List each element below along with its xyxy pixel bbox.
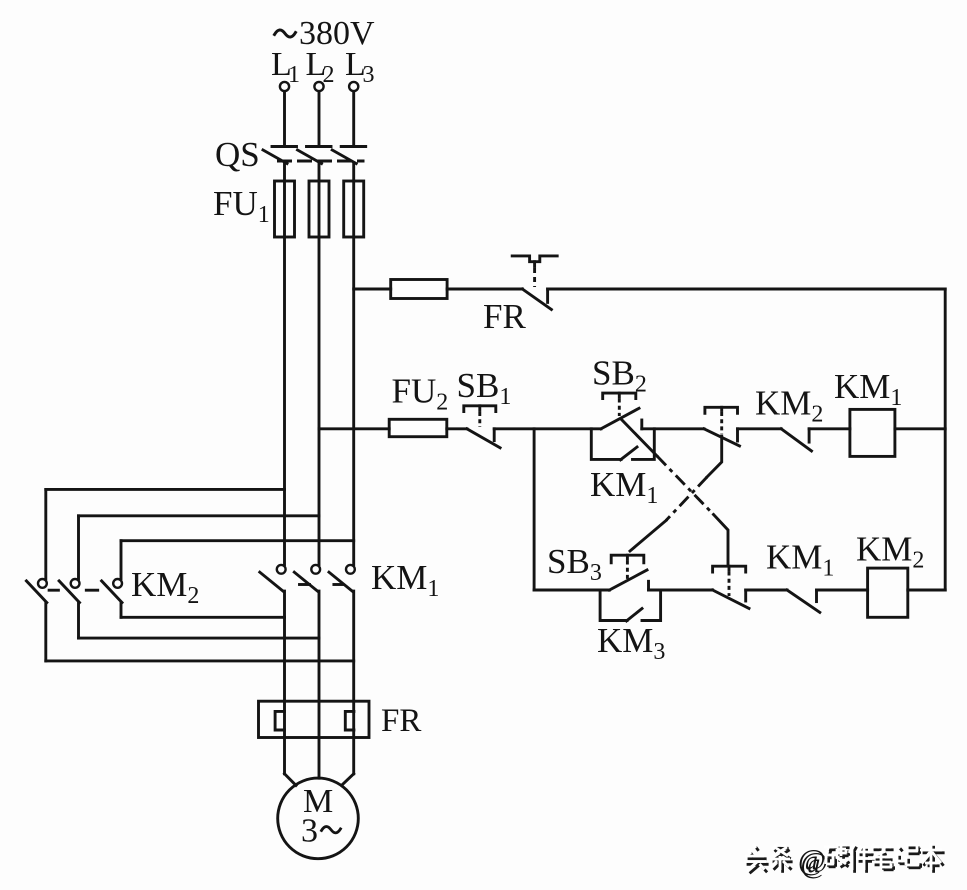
svg-text:QS: QS [215,135,260,174]
wire L3 terminal to QS [352,92,355,147]
fuse control top [391,280,447,299]
svg-text:FU2: FU2 [392,372,449,416]
svg-text:FR: FR [483,297,526,336]
svg-text:KM1: KM1 [371,558,439,602]
button SB3 NO contact [609,555,648,590]
wire crossover row2 bottom [79,637,320,640]
svg-text:FU1: FU1 [213,184,270,228]
coil KM1 [850,409,895,456]
wire rung A from L2 [319,427,389,430]
wire FR to right rail [548,288,946,291]
wire KM2 NC to coil KM1 [809,427,850,430]
wire L3 lower vertical [352,591,355,774]
contactor KM2 main linkage dash b [86,589,97,592]
svg-text:SB2: SB2 [592,354,647,398]
contactor KM2 NC interlock contact [781,429,811,451]
fuse FU1 pole 3 [344,181,364,237]
wire phase L3 vertical [352,181,355,565]
coil KM2 [868,568,908,617]
svg-text:KM1: KM1 [766,538,834,582]
svg-text:SB1: SB1 [457,366,512,410]
wire left vertical 1 upper [44,489,47,579]
wire to KM2 NC [738,427,782,430]
contactor KM1 main linkage dash b [334,583,343,586]
wire crossover row2 top [79,514,320,517]
svg-text:KM3: KM3 [597,621,665,665]
wire SB1 to SB2 [494,427,601,430]
wire L2 terminal to QS [318,92,321,147]
wire to KM1 NC [746,589,787,592]
svg-text:KM1: KM1 [834,367,902,411]
wire crossover row3 bottom [121,616,285,619]
wire QS to FU1 L2 [318,164,321,182]
fuse FU1 pole 2 [309,181,329,237]
wire left vertical 2 upper [77,516,80,579]
contactor KM2 main linkage dash a [49,589,58,592]
svg-text:SB3: SB3 [547,542,602,586]
contactor KM2 main contact 1 [26,579,46,603]
wire crossover row3 top [121,539,354,542]
switch QS pole 3 [332,147,366,164]
contactor KM3 latch contact loop [600,590,661,621]
watermark 头条@硬件笔记本 [744,843,945,880]
wire SB3 to linked NC [649,589,713,592]
wire control branch top from L3 [354,288,391,291]
terminal L1 [280,82,289,91]
svg-text:@: @ [798,844,826,877]
relay FR heater element 1 [275,711,284,730]
wire phase L1 vertical [283,181,286,565]
wire phase L2 vertical [318,181,321,565]
svg-text:FR: FR [381,703,421,739]
fuse FU2 [389,419,447,436]
svg-text:KM1: KM1 [590,465,658,509]
wire junction drop to rung B [533,429,536,590]
relay FR heater element 3 [345,711,354,730]
svg-text:3: 3 [301,813,318,850]
wire QS to FU1 L3 [352,164,355,182]
button SB3 linked NC contact in rung A [704,407,740,446]
relay FR NC contact [522,289,551,310]
wire coil KM2 to rail [908,589,945,592]
contactor KM2 main contact 3 [102,579,122,603]
wire left vertical 1 lower [44,603,47,661]
wire L2 lower vertical [318,591,321,778]
button SB2 NO contact [601,393,642,429]
linkage SB2 to lower NC dash-dot [622,420,728,564]
svg-text:2: 2 [323,62,335,88]
contactor KM1 main linkage dash a [300,583,310,586]
wire crossover row1 bottom [46,659,354,662]
fuse FU1 pole 1 [275,181,295,237]
motor M circle [278,778,359,859]
label ~380V [275,30,296,37]
svg-text:KM2: KM2 [131,565,199,609]
svg-text:KM2: KM2 [755,384,823,428]
contactor KM1 latch contact loop [591,429,654,460]
wire left vertical 2 lower [77,603,80,639]
contactor KM1 NC interlock contact [787,590,820,612]
wire L1 terminal to QS [283,92,286,147]
wire right rail [944,289,947,590]
svg-text:3: 3 [363,62,375,88]
wire left vertical 3 upper [120,541,123,579]
contactor KM1 main contact 3 [329,565,355,591]
wire QS to FU1 L1 [283,164,286,182]
wire fuse to FR contact [447,288,522,291]
wire L1 into motor [285,774,297,786]
wire coil KM1 to rail [895,427,945,430]
switch QS pole 1 [263,147,297,164]
wire L3 into motor [342,774,354,786]
wire left vertical 3 lower [120,603,123,618]
wire SB2 to interlock NC [642,427,704,430]
relay FR trip symbol [512,256,557,287]
switch QS linkage dashed [277,160,365,163]
button SB1 NC contact [464,406,500,448]
wire crossover row1 top [46,488,285,491]
button SB2 linked NC contact in rung B [713,566,749,608]
svg-text:1: 1 [288,62,300,88]
contactor KM1 main contact 2 [294,565,320,591]
terminal L3 [349,82,358,91]
linkage SB3 to upper NC dash-dot [630,436,722,551]
wire FU2 to SB1 [447,427,467,430]
wire L1 lower vertical [283,591,286,774]
wire KM1 NC to coil KM2 [817,589,868,592]
wire rung B left [534,589,609,592]
contactor KM1 main contact 1 [260,565,286,591]
contactor KM2 main contact 2 [59,579,79,603]
terminal L2 [314,82,323,91]
switch QS pole 2 [298,147,332,164]
relay FR heater box [259,701,370,737]
